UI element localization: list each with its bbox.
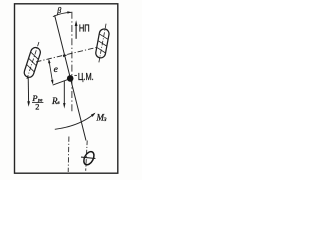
- svg-text:в: в: [57, 100, 60, 106]
- wire: vehicle longitudinal axis (solid): [55, 15, 86, 140]
- rear wheel: [82, 150, 96, 167]
- wire: line across rear wheel: [81, 157, 95, 158]
- force arrow Ррв/2: [27, 77, 29, 102]
- wire: lower continuation of direction line (dash-dot): [67, 137, 70, 173]
- arrow НП (direction of motion): [75, 25, 77, 39]
- wire: lever line from e-dimension to centre of mass: [53, 80, 68, 85]
- dimension e (double arrow): [49, 60, 53, 84]
- wire: front axle dash-dot line: [36, 47, 97, 62]
- force arrow Rв: [63, 81, 65, 104]
- svg-text:Ц.М.: Ц.М.: [78, 71, 94, 83]
- svg-text:НП: НП: [79, 23, 90, 34]
- node: arrow tick on axle at crossing: [63, 55, 68, 58]
- wire: dashed vertical direction line (НП reference): [71, 12, 73, 113]
- tick right of centre: [74, 74, 77, 76]
- moment arc Мз: [55, 114, 95, 130]
- svg-text:е: е: [54, 65, 58, 75]
- svg-text:β: β: [56, 6, 61, 15]
- svg-text:з: з: [103, 115, 107, 123]
- wire: rear wheel centre dash-dot line: [86, 141, 88, 171]
- right front wheel: [94, 23, 111, 64]
- left front wheel: [22, 40, 43, 80]
- border frame: [15, 4, 118, 173]
- svg-text:2: 2: [35, 102, 39, 111]
- angle arc beta at top: [53, 12, 71, 16]
- node: centre of mass point: [67, 75, 74, 82]
